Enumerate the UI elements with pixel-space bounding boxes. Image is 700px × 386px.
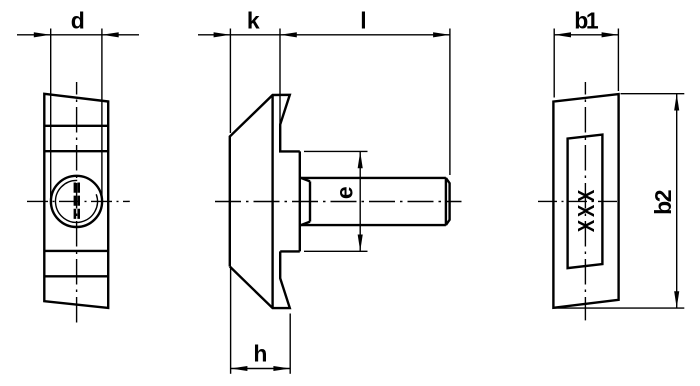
head inner vertical edge [271,95,273,308]
h extension line left [230,268,232,374]
b2 extension line top [621,93,685,95]
head profile outline [230,95,300,308]
b1 extension line right [617,29,619,92]
vertical center line [584,82,586,320]
d arrow right [102,32,119,37]
l extension line right [449,29,451,176]
shank top edge [300,177,446,179]
head edge line 3 [44,250,108,252]
slot hidden line right [77,183,80,222]
thread runout top [301,178,310,182]
head outline quad [44,94,108,308]
b2 arrow up [674,94,679,111]
e arrow up [358,152,363,169]
svg-text:k: k [247,7,260,33]
slot hidden line left [74,183,77,222]
thread minor arc [55,180,97,222]
end face [446,178,450,225]
e dimension line [359,152,361,252]
d extension line left [50,29,52,199]
svg-text:b1: b1 [574,7,599,33]
svg-text:XXX: XXX [574,187,599,232]
head edge line 4 [44,275,108,277]
shank circle (thread major) [51,176,102,227]
neck rectangle [568,135,603,269]
d extension line right [101,29,103,199]
vertical center line [76,82,78,323]
horizontal center line [538,200,621,202]
head edge line 2 [44,150,108,152]
svg-text:d: d [71,7,85,33]
k extension line left [229,29,231,134]
e arrow down [358,235,363,252]
h dimension line [231,368,291,370]
h arrow left [231,366,248,371]
svg-text:l: l [360,7,366,33]
shank bottom edge [300,224,446,226]
head edge line 1 [44,125,108,127]
l arrow right [433,32,450,37]
horizontal center line [26,200,130,202]
middle axis center line [215,201,462,203]
svg-text:h: h [253,341,267,367]
b2 extension line bottom [553,307,684,309]
k/l extension line middle [279,29,281,127]
b1 dimension line [554,34,618,36]
svg-text:e: e [331,186,357,199]
h extension line right [289,314,291,374]
d arrow left [34,32,51,37]
h arrow right [273,366,290,371]
k arrow (outside left) [214,32,231,37]
thread start line [309,181,311,221]
washer face [299,151,301,251]
e extension line bottom [304,250,368,252]
b1 arrow left [554,32,571,37]
l arrow left [280,32,297,37]
d dimension line [17,34,139,36]
end chamfer line [445,178,447,225]
b1 extension line left [553,29,555,98]
b2 dimension line [676,94,678,308]
b2 arrow down [674,291,679,308]
k and l dimension line [198,34,450,36]
e extension line top [304,150,368,152]
svg-text:b2: b2 [650,190,676,215]
thread runout bottom [301,222,310,226]
head outline quad [553,94,618,308]
b1 arrow right [602,32,619,37]
